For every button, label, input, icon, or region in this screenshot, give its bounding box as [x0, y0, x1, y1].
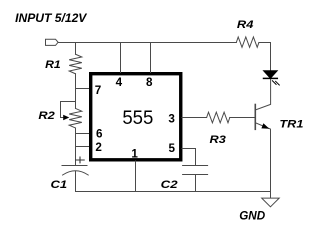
svg-text:6: 6 — [96, 126, 103, 140]
svg-text:7: 7 — [95, 83, 102, 97]
svg-text:R1: R1 — [45, 59, 61, 71]
capacitor C2 — [183, 166, 208, 175]
svg-text:R4: R4 — [237, 19, 254, 31]
transistor TR1 collector — [255, 79, 270, 111]
potentiometer R2 — [69, 108, 82, 128]
svg-text:4: 4 — [116, 75, 123, 89]
wire pin 7 stub — [76, 88, 91, 90]
ground symbol — [262, 198, 280, 207]
svg-text:8: 8 — [146, 75, 153, 89]
wire pin 5 lead — [182, 149, 196, 166]
svg-text:TR1: TR1 — [279, 118, 303, 130]
wire R4 to LED — [259, 43, 271, 71]
wire ground stub — [270, 192, 272, 199]
transistor TR1 emitter — [255, 123, 270, 192]
wire R1 bottom to R2 top — [75, 74, 77, 109]
svg-text:3: 3 — [168, 112, 175, 126]
svg-text:INPUT 5/12V: INPUT 5/12V — [15, 11, 87, 25]
wire base lead — [230, 117, 256, 119]
wire R2 bottom to C1 — [75, 128, 77, 165]
svg-text:R2: R2 — [38, 110, 54, 122]
wire pin 4 lead — [120, 43, 122, 73]
TR1 emitter arrow — [261, 123, 269, 128]
R2 wiper arrow — [63, 115, 69, 120]
resistor R3 — [207, 112, 230, 123]
wire pin 3 lead — [182, 117, 207, 119]
C1 plus sign — [76, 157, 84, 163]
capacitor C1 — [62, 166, 88, 176]
wire R1 top lead — [75, 43, 77, 55]
input connector — [46, 39, 59, 45]
svg-text:GND: GND — [239, 208, 265, 222]
wire pin 8 lead — [150, 43, 152, 73]
svg-text:555: 555 — [122, 107, 153, 129]
resistor R1 — [69, 54, 82, 74]
svg-text:C1: C1 — [51, 179, 68, 191]
svg-text:5: 5 — [169, 141, 176, 155]
wire pin 2 stub — [76, 146, 91, 148]
svg-text:2: 2 — [95, 140, 102, 154]
svg-text:C2: C2 — [161, 179, 178, 191]
wire pin 1 lead — [135, 161, 137, 192]
svg-text:1: 1 — [131, 146, 138, 160]
wire C1 bottom lead — [75, 171, 77, 192]
IC U1 555 body — [91, 74, 181, 160]
wire pin 6 stub — [76, 133, 91, 135]
LED D1 triangle — [264, 71, 278, 78]
wire C2 bottom lead — [195, 175, 197, 192]
wire top supply rail — [58, 42, 236, 44]
transistor TR1 base bar — [254, 105, 256, 130]
svg-text:R3: R3 — [210, 134, 226, 146]
LED D1 cathode bar — [264, 77, 278, 79]
resistor R4 — [236, 37, 259, 47]
wire R2 wiper loop — [61, 102, 76, 118]
LED D1 emission marks — [272, 81, 279, 85]
wire ground bus — [76, 191, 271, 193]
